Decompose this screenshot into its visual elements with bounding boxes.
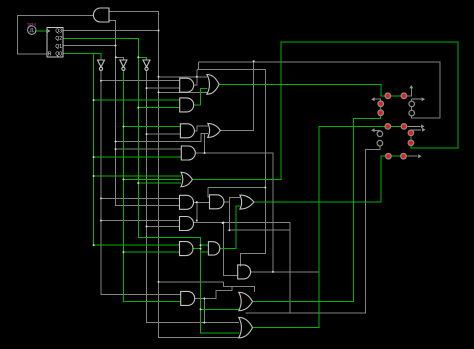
wire f LED gray tail to arrow [375, 99, 381, 102]
junction (146.5,88.1) [146, 87, 148, 89]
wire e LED chain down [290, 147, 380, 313]
wire Q0 branch to AND B2 [94, 156, 182, 158]
wire Q2 branch to AND A2 [138, 107, 179, 109]
wire link into riser x265 [208, 187, 265, 189]
junction (93.6,100.1) [93, 99, 95, 101]
junction (200.5,245.2) [200, 244, 202, 246]
wire Q0' trunk from inverter U3 [101, 71, 181, 295]
or-gate F [239, 292, 253, 310]
junction (101,80.7) [100, 80, 102, 82]
wire AND B1 output staircase [194, 126, 207, 131]
wire clock to counter [35, 30, 47, 32]
junction (158.5,92.3) [158, 91, 160, 93]
svg-text:R: R [48, 52, 52, 58]
and-gate U2 reset (west facing) [93, 8, 109, 22]
junction (138.3,183) [137, 182, 139, 184]
svg-text:Q2: Q2 [55, 36, 62, 42]
wire d LED gray tail [408, 155, 418, 157]
junction (123.4,179.5) [122, 179, 124, 181]
LED d2 (lit) [401, 153, 407, 159]
junction (138.3,107.6) [137, 107, 139, 109]
and-gate A2 [180, 98, 194, 112]
LED a1 (lit) [385, 93, 391, 99]
or-gate B [208, 123, 221, 137]
wire Q1 branch to AND B2 [116, 148, 182, 150]
wire Q3 branch to row f [159, 282, 255, 292]
junction (223.4,222.5) [222, 222, 224, 224]
wire Q0 trunk [94, 54, 180, 245]
and-gate B1 [180, 124, 194, 138]
wire AND E1 long output to e-net [194, 223, 291, 313]
LED f2 (lit) [378, 110, 384, 116]
LED a2 (lit) [401, 93, 407, 99]
wire AND U2 input from Q1 [109, 21, 116, 46]
wire Q2-inv branch to AND A1 in2 [147, 87, 180, 89]
wire AND D1 junction down [196, 202, 198, 220]
junction (204.6,153) [204, 152, 206, 154]
svg-text:Q0: Q0 [55, 52, 62, 58]
wire Q2 branch to OR C [138, 182, 181, 184]
wire Q0 output to inverter U3 [63, 54, 101, 60]
junction (253.7,61.3) [253, 60, 255, 62]
wire b LED arrow shaft [408, 125, 421, 127]
wire AND E1 branch down to AND Efinal [223, 223, 237, 276]
inverter U3 [98, 60, 105, 67]
svg-text:Q1: Q1 [55, 44, 62, 50]
arrow heads [371, 85, 425, 158]
and-gate A1 [180, 78, 194, 92]
and-gate E3 [208, 242, 219, 255]
wire Q2 output row green [63, 38, 239, 333]
wire Q0 branch to OR C [94, 175, 181, 177]
wire green trunk branch AND E3 in2 [201, 251, 209, 253]
wire AND A2 output staircase [194, 88, 207, 105]
wire Q1' branch to AND E2 [123, 251, 179, 253]
wire green trunk branch OR F lower [201, 308, 239, 310]
junction (158.5,281.9) [158, 281, 160, 283]
junction (272.9,271.9) [272, 271, 274, 273]
junction (265.4,187.5) [264, 187, 266, 189]
arrow head segment f [371, 97, 374, 101]
arrow head segment c [422, 128, 425, 132]
and-gate F1 [181, 291, 195, 305]
wire AND Efinal output [251, 271, 319, 273]
and-gate B2 [181, 146, 195, 160]
wire AND E3 output to OR D riser [220, 206, 240, 249]
inverter U4 [120, 60, 127, 67]
LED g2 (lit) [401, 124, 407, 130]
junction (115.5,45.5) [115, 45, 117, 47]
counter U1 box [47, 28, 63, 58]
wire inverter U4 input feed [116, 57, 124, 60]
junction (222.6,223) [222, 222, 224, 224]
wire net c from OR C around top right [192, 42, 458, 180]
wire Q0 branch to AND A2 [94, 99, 180, 101]
wire OR B output to riser [220, 61, 253, 130]
wire Q1 trunk [116, 46, 180, 206]
wire Q2' branch to AND E1 [147, 226, 180, 228]
wire a net gray tail to arrow [406, 88, 412, 96]
inverter U5 [143, 60, 150, 67]
junction (115.5,149.1) [115, 148, 117, 150]
junction (204.4,298.4) [203, 297, 205, 299]
wire AND E2 output [193, 248, 201, 250]
wire Q3 branch to OR A lower input [159, 91, 209, 93]
wire reset loop to R input [18, 16, 94, 55]
wire Q1 output row [63, 45, 116, 47]
or-gate C [181, 172, 192, 186]
wire Q3 output row [63, 30, 159, 32]
wire AND F1 staircase to OR F upper [204, 286, 232, 298]
wire AND D2 output staircase to OR D [224, 198, 240, 202]
LED f1 (lit) [378, 101, 384, 107]
junction (93.6,245.1) [93, 244, 95, 246]
wire net f from OR F to LEDs [253, 102, 381, 302]
junction (146.5,134.1) [146, 133, 148, 135]
junction (158.5,30.5) [158, 30, 160, 32]
svg-text:Q3: Q3 [55, 28, 62, 34]
wire Q3 branch to OR A input [159, 76, 207, 78]
junction (115.5,141.5) [115, 141, 117, 143]
and-gate E4 [238, 265, 251, 279]
wire AND F1 output [195, 297, 205, 299]
junction (158.5,76.8) [158, 76, 160, 78]
wire net g from OR G to LEDs [253, 126, 408, 327]
wire row e cross link [229, 202, 290, 230]
and-gate D1 [180, 195, 194, 209]
wire net b top run to LED column [198, 62, 440, 118]
LED c1 (lit) [408, 130, 414, 136]
wire AND A1 output riser [194, 69, 197, 85]
and-gate E2 [180, 242, 194, 256]
junction (101,198.4) [100, 197, 102, 199]
junction (200.5,309.3) [200, 308, 202, 310]
arrow head segment a [409, 85, 413, 88]
arrow head segment b [422, 97, 425, 101]
or-gate G [239, 317, 253, 337]
or-gate D [240, 195, 254, 209]
wire c LED arrow shaft [411, 129, 421, 131]
wire green trunk branch AND E3 in1 [201, 244, 209, 246]
wire Q3 trunk down to bottom row [159, 31, 239, 338]
LED c2 (lit) [408, 140, 414, 146]
or-gate A [207, 75, 219, 95]
arrow head segment e [371, 128, 374, 132]
junction (204.4,322.6) [203, 322, 205, 324]
wire Q1' branch to OR C [123, 179, 181, 181]
junction (200.5,248.6) [200, 248, 202, 250]
wire AND B2 riser to OR B [204, 134, 206, 154]
wire AND D2 upper input drop [208, 188, 209, 197]
wire Q0' branch to AND A1 [101, 80, 180, 82]
LED g1 (lit) [385, 124, 391, 130]
wire AND U2 input from Q3 [109, 12, 159, 31]
wire Q0' branch to AND D1 [101, 197, 180, 199]
wire Q1' trunk from inverter U4 [123, 71, 180, 302]
junction (196.8,202.3) [196, 201, 198, 203]
wire Q0' branch to AND E1 [101, 220, 180, 222]
wire e arrow stub [375, 129, 380, 132]
LED b1 (off) [409, 101, 415, 107]
wire net a from OR A to LEDs [219, 84, 406, 95]
arrow head segment g [421, 124, 424, 128]
wire AND D1 output [194, 201, 210, 203]
wire link OR A area to riser x265 [197, 69, 266, 266]
junction (93.6,157.1) [93, 156, 95, 158]
junction (146.5,226.5) [146, 226, 148, 228]
LED e1 (off) [377, 131, 383, 137]
LED e2 (off) [377, 140, 383, 146]
wire Q1 branch to OR B input [116, 134, 208, 142]
wire Q2' trunk from inverter U5 [147, 71, 239, 323]
wire AND B2 output long run to OR E [195, 153, 273, 272]
arrow head segment d [418, 154, 421, 158]
wire Q1' branch to AND B1 [123, 126, 180, 128]
junction (123.4,126.5) [122, 126, 124, 128]
junction (196.8,76.8) [196, 76, 198, 78]
LED d1 (lit) [386, 153, 392, 159]
junction (138.3,57.3) [137, 56, 139, 58]
and-gate E1 [180, 217, 194, 231]
wire AND F1 junction down to OR G input [203, 298, 205, 322]
junction (123.4,252.1) [122, 251, 124, 253]
junction (229.3,230.2) [228, 229, 230, 231]
LED b2 (off) [409, 110, 415, 116]
svg-text:500Hz: 500Hz [27, 23, 37, 27]
wire Q2' branch to AND B1 [147, 133, 181, 135]
junction (93.6,176) [93, 175, 95, 177]
wire arrow b [412, 98, 422, 100]
wire Q2 branch to inverter U5 [138, 57, 146, 60]
and-gate D2 [210, 195, 224, 209]
junction (101,220.5) [100, 220, 102, 222]
clock CLK1 [27, 23, 37, 35]
junction (115.8,57.3) [115, 56, 117, 58]
junction (196.8,220.5) [196, 220, 198, 222]
wire net d from OR D to LEDs [254, 156, 408, 202]
LEDs segment a (lit) [377, 93, 414, 159]
